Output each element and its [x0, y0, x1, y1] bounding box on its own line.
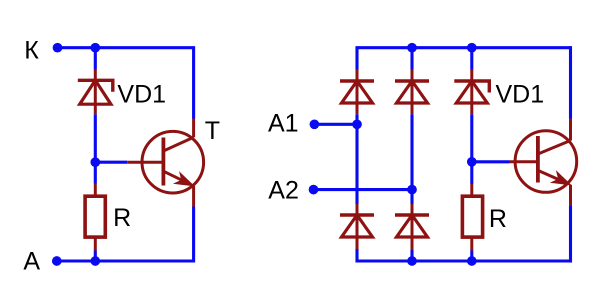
node: base junction (right circuit) [467, 157, 477, 167]
svg-text:A2: A2 [268, 177, 299, 205]
wire A terminal to bottom junction [57, 259, 96, 262]
resistor R (right) [462, 184, 482, 251]
wire zener VD1 to base junction (right) [470, 114, 473, 162]
wire A2 terminal to branch 2 [314, 188, 413, 191]
svg-text:A1: A1 [268, 109, 299, 137]
terminal dot K [53, 43, 63, 53]
svg-text:VD1: VD1 [496, 80, 545, 108]
wire base junction down to resistor R (right) [470, 162, 473, 184]
wire A1 terminal to branch 1 [314, 123, 357, 126]
wire A1 junction down to bottom diode (crosses A2 wire) [355, 124, 358, 204]
wire top junction to top-right corner down to collector [95, 48, 193, 119]
wire bottom junction to bottom-right corner up to emitter [95, 207, 193, 262]
node: bottom bus junction branch 3 [467, 256, 477, 266]
terminal dot A1 [310, 119, 320, 129]
terminal dot A [52, 256, 62, 266]
zener diode VD1 (right) [454, 70, 489, 115]
node: top bus junction branch VD1 [467, 43, 477, 53]
resistor R (left) [85, 184, 105, 251]
node: base junction (left circuit) [90, 157, 100, 167]
wire diode 2 to A2 junction [410, 114, 413, 189]
svg-text:А: А [23, 247, 40, 275]
wire resistor to bottom bus (right) [470, 251, 473, 262]
transistor (right, NPN) [510, 119, 577, 207]
svg-text:К: К [24, 36, 39, 64]
wire base junction to transistor base [95, 161, 127, 164]
wire top bus down to zener VD1 (right) [470, 48, 473, 70]
node: A1 junction [352, 119, 362, 129]
svg-text:VD1: VD1 [117, 80, 166, 108]
svg-text:R: R [113, 204, 131, 232]
wire top bus (right circuit, with corner down to first bridge diode) [357, 48, 571, 70]
wire base junction down to resistor R [94, 162, 97, 183]
node: top bus junction branch 2 [407, 43, 417, 53]
node: bottom junction (left circuit) [90, 256, 100, 266]
wire base junction to transistor base (right) [472, 160, 510, 163]
bridge diode bottom-middle (branch 2) [395, 204, 429, 251]
wire resistor to bottom junction [94, 251, 97, 262]
svg-text:R: R [489, 205, 507, 233]
wire diode 1 to A1 junction [355, 114, 358, 124]
bridge diode bottom-left (branch 1) [340, 204, 374, 251]
wire bottom bus corner to emitter (right transistor) [569, 206, 572, 263]
svg-text:T: T [205, 117, 220, 145]
node: bottom bus junction branch 2 [407, 256, 417, 266]
wire bottom bus (right circuit, with corner up to first bridge diode) [357, 249, 571, 261]
bridge diode top-left (branch 1) [340, 70, 374, 115]
terminal dot A2 [309, 185, 319, 195]
zener diode VD1 (left) [78, 70, 113, 115]
wire bottom diode 2 to bottom bus [410, 250, 413, 261]
wire A2 junction down to bottom diode [410, 190, 413, 204]
bridge diode top-middle (branch 2) [395, 70, 429, 115]
transistor T (left, NPN) [127, 119, 203, 207]
wire K terminal to top junction [58, 46, 96, 49]
wire top bus down to second bridge diode [410, 48, 413, 70]
node: top junction (left circuit) [90, 43, 100, 53]
wire top bus corner to collector (right transistor) [569, 46, 572, 118]
node: A2 junction [407, 185, 417, 195]
wire VD1 to base junction [94, 114, 97, 162]
wire top junction down to VD1 [94, 48, 97, 70]
